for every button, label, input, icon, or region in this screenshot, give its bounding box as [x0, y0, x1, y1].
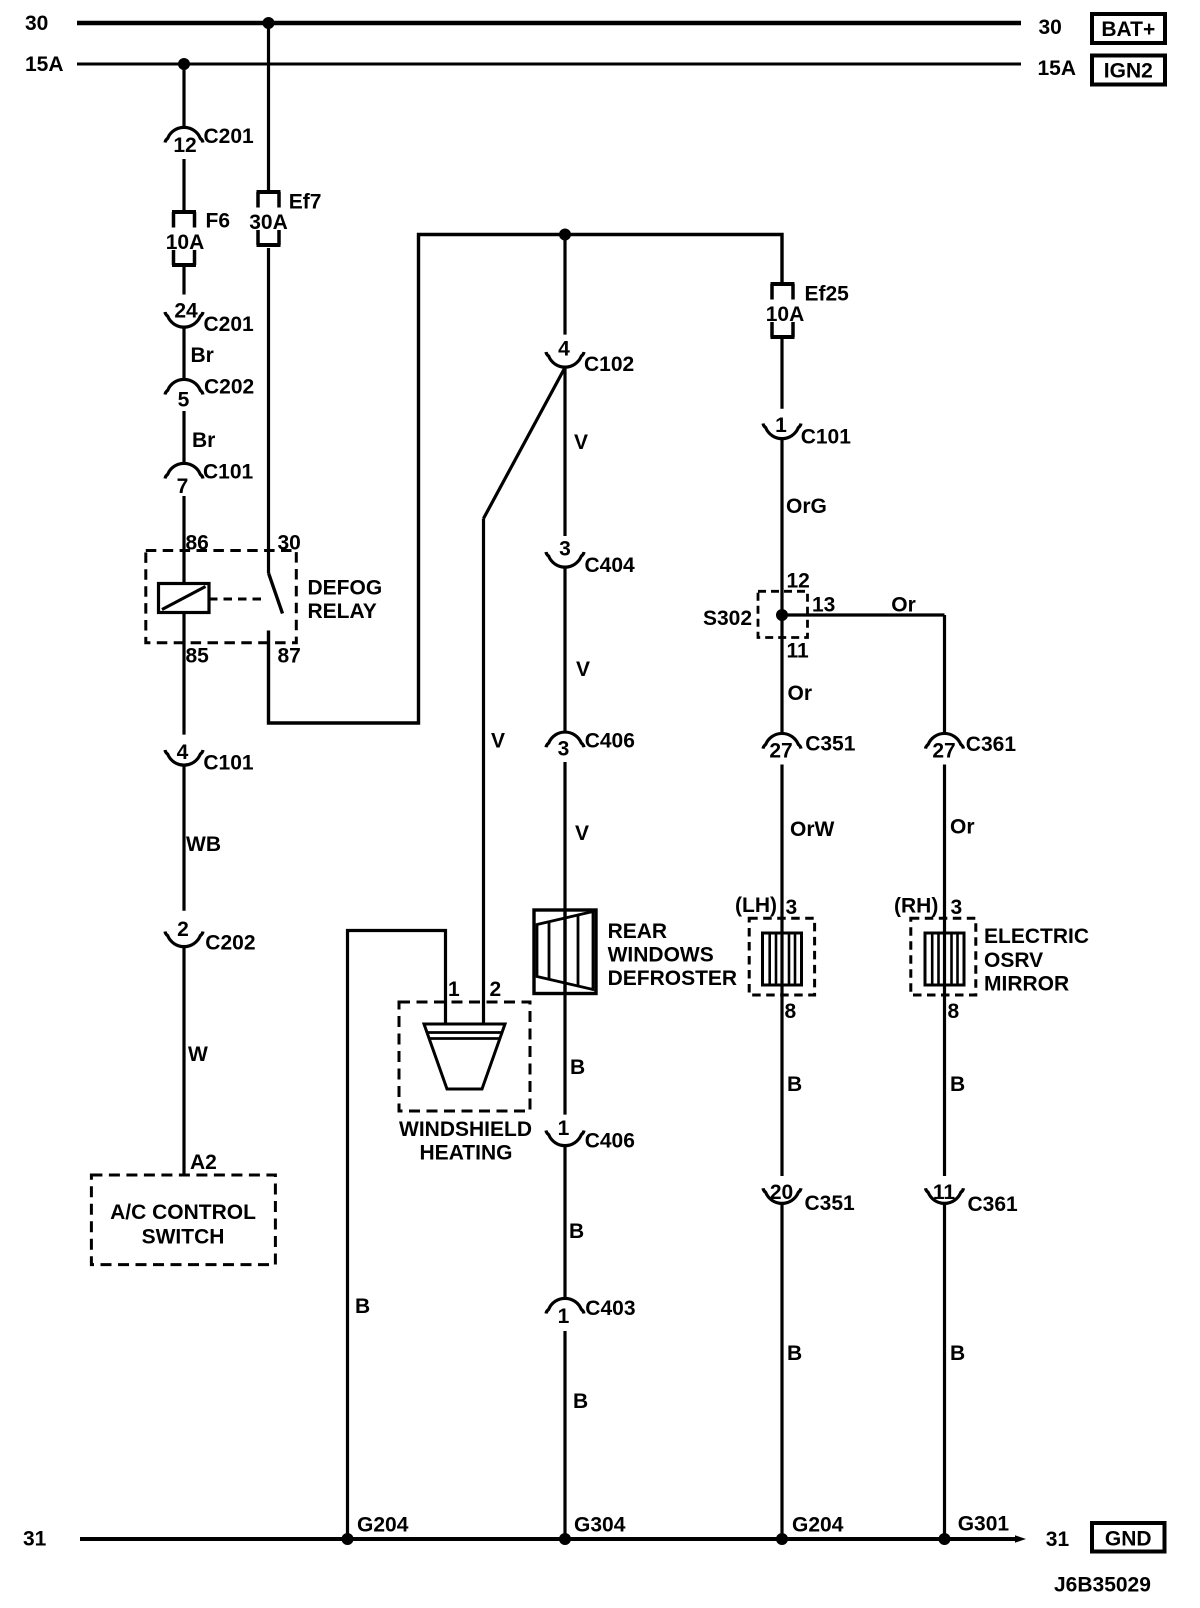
svg-text:V: V [574, 431, 588, 454]
connector C361 pin 27 [926, 733, 964, 748]
svg-text:Ef7: Ef7 [289, 191, 322, 214]
svg-text:GND: GND [1105, 1528, 1152, 1551]
wire W C202 pin2 to A/C control switch pin A2 [182, 947, 185, 1175]
svg-text:10A: 10A [166, 231, 205, 254]
wire Or splice S302 to C361 branch [782, 613, 945, 616]
svg-text:WINDSHIELD: WINDSHIELD [399, 1118, 532, 1141]
wire fuse Ef7 to relay terminal 30 [267, 248, 270, 573]
wire bus 15A (IGN2) horizontal [77, 63, 1021, 66]
svg-text:J6B35029: J6B35029 [1054, 1574, 1151, 1597]
svg-text:10A: 10A [766, 303, 805, 326]
node IGN2 box [1092, 56, 1165, 85]
svg-text:3: 3 [559, 538, 571, 561]
defog relay dashed box [146, 551, 296, 643]
svg-text:G301: G301 [958, 1513, 1010, 1536]
svg-text:(LH): (LH) [735, 894, 777, 917]
svg-text:C406: C406 [585, 1130, 635, 1153]
fuse Ef25 10A [771, 282, 795, 286]
svg-text:G204: G204 [357, 1514, 409, 1537]
svg-text:2: 2 [177, 918, 189, 941]
svg-text:Or: Or [891, 593, 916, 616]
svg-text:5: 5 [178, 389, 190, 412]
svg-text:G304: G304 [574, 1514, 626, 1537]
wire bus 30 to fuse Ef7 [267, 23, 270, 190]
svg-text:1: 1 [775, 414, 787, 437]
svg-text:Or: Or [950, 816, 975, 839]
svg-text:27: 27 [932, 740, 955, 763]
splice S302 dashed box [758, 591, 808, 637]
connector C406 pin 3 [546, 732, 584, 747]
A/C control switch dashed box [91, 1175, 275, 1265]
svg-text:31: 31 [23, 1528, 47, 1551]
svg-text:1: 1 [558, 1117, 570, 1140]
connector C101 pin 7 [165, 463, 203, 478]
svg-text:30: 30 [278, 532, 301, 555]
wire relay terminal 87 routed to Ef25 feed [269, 235, 783, 724]
svg-text:C351: C351 [805, 733, 856, 756]
svg-text:MIRROR: MIRROR [984, 973, 1069, 996]
node BAT+ box [1092, 14, 1165, 43]
svg-text:B: B [570, 1056, 585, 1079]
node junction on bus 15A at left column [178, 58, 190, 70]
svg-text:C403: C403 [585, 1297, 635, 1320]
defog relay switch blade [269, 573, 283, 614]
connector C201 pin 12 [165, 127, 203, 142]
svg-text:85: 85 [186, 645, 210, 668]
svg-text:86: 86 [186, 532, 209, 555]
wire Or C361 pin27 to RH mirror defroster [943, 765, 946, 1177]
svg-text:C101: C101 [801, 426, 852, 449]
svg-text:B: B [950, 1073, 965, 1096]
wire OrG C101 pin1 to splice S302 [780, 439, 783, 733]
svg-text:HEATING: HEATING [420, 1142, 513, 1165]
wire branch to windshield heating pin 2 [484, 368, 566, 519]
svg-text:30: 30 [1039, 16, 1062, 39]
svg-text:C361: C361 [968, 1193, 1019, 1216]
fuse F6 10A [172, 210, 196, 214]
svg-text:OSRV: OSRV [984, 949, 1043, 972]
svg-text:12: 12 [787, 570, 810, 593]
wire V C404 pin3 to C406 pin 3 [563, 568, 566, 732]
wire Or branch to connector C361 pin 27 [943, 615, 946, 733]
svg-text:C201: C201 [204, 125, 255, 148]
svg-text:31: 31 [1046, 1528, 1070, 1551]
wire C201 pin12 to fuse F6 [182, 159, 185, 210]
wire B defroster to connector C406 pin 1 [563, 994, 566, 1115]
bus 31 arrowhead [1015, 1535, 1026, 1542]
svg-text:11: 11 [787, 640, 810, 663]
svg-text:B: B [573, 1390, 588, 1413]
svg-text:IGN2: IGN2 [1104, 60, 1153, 83]
svg-text:15A: 15A [25, 53, 64, 76]
connector C202 pin 5 [165, 379, 203, 394]
wire Br C202 pin5 to C101 pin 7 [182, 411, 185, 463]
wire 15A bus to connector C201 pin 12 [182, 64, 185, 127]
svg-text:3: 3 [786, 896, 798, 919]
wire OrW C351 pin27 to LH mirror defroster [780, 765, 783, 1177]
wire B C406 pin1 to C403 pin 1 [563, 1146, 566, 1298]
svg-text:13: 13 [812, 593, 835, 616]
svg-text:8: 8 [948, 1000, 960, 1023]
svg-text:V: V [575, 822, 589, 845]
wire fuse F6 to connector C201 pin 24 [182, 267, 185, 295]
svg-text:B: B [787, 1073, 802, 1096]
svg-text:C404: C404 [585, 554, 636, 577]
wire WB C101 pin4 to C202 pin 2 [182, 766, 185, 911]
svg-text:REAR: REAR [608, 920, 668, 943]
svg-text:A2: A2 [190, 1151, 217, 1174]
svg-text:W: W [188, 1043, 208, 1066]
defog relay coil [159, 584, 210, 613]
LH mirror defroster dashed box [749, 918, 814, 995]
svg-text:15A: 15A [1038, 57, 1077, 80]
wire bus 31 (GND) horizontal [80, 1537, 1016, 1541]
svg-text:1: 1 [558, 1305, 570, 1328]
svg-text:C202: C202 [205, 932, 255, 955]
relay actuator dashed link [209, 598, 266, 601]
wire junction to connector C102 pin 4 [563, 235, 566, 335]
wire bus 30 (BAT+) horizontal [77, 21, 1021, 26]
svg-text:7: 7 [177, 475, 189, 498]
node junction on bus 30 at Ef7 column [263, 17, 275, 29]
wire B C351 pin20 to ground G204 [780, 1204, 783, 1539]
svg-text:DEFROSTER: DEFROSTER [608, 967, 738, 990]
svg-text:4: 4 [558, 338, 570, 361]
svg-text:RELAY: RELAY [308, 600, 377, 623]
wire V C102 pin4 to C404 pin 3 [563, 368, 566, 537]
svg-text:BAT+: BAT+ [1101, 18, 1155, 41]
svg-text:Br: Br [191, 344, 214, 367]
svg-text:V: V [576, 658, 590, 681]
windshield heating element [424, 1024, 505, 1089]
wire V C406 pin3 to rear windows defroster [563, 762, 566, 910]
svg-text:V: V [491, 730, 505, 753]
svg-text:8: 8 [785, 1000, 797, 1023]
ground G304 junction defroster branch [559, 1533, 571, 1545]
svg-text:B: B [355, 1295, 370, 1318]
fuse Ef7 30A [257, 190, 281, 194]
wire windshield heating pin 1 to ground G204 [348, 931, 446, 1540]
svg-text:87: 87 [278, 645, 301, 668]
wire relay coil 85 to connector C101 pin 4 [182, 613, 185, 735]
svg-text:Ef25: Ef25 [805, 283, 850, 306]
svg-text:Br: Br [192, 429, 215, 452]
svg-text:B: B [569, 1220, 584, 1243]
rear windows defroster element [534, 910, 596, 994]
svg-text:24: 24 [174, 300, 198, 323]
svg-text:C351: C351 [805, 1192, 856, 1215]
svg-text:12: 12 [173, 134, 196, 157]
svg-text:WB: WB [186, 833, 221, 856]
svg-text:30A: 30A [249, 211, 288, 234]
svg-text:3: 3 [558, 738, 570, 761]
svg-text:(RH): (RH) [894, 895, 938, 918]
svg-text:4: 4 [177, 741, 189, 764]
svg-text:ELECTRIC: ELECTRIC [984, 925, 1089, 948]
svg-text:C361: C361 [966, 733, 1017, 756]
svg-text:B: B [950, 1342, 965, 1365]
svg-text:WINDOWS: WINDOWS [608, 944, 714, 967]
svg-text:B: B [787, 1342, 802, 1365]
svg-text:30: 30 [25, 12, 48, 35]
svg-text:SWITCH: SWITCH [142, 1226, 225, 1249]
wire Br C201 pin24 to C202 pin 5 [182, 328, 185, 380]
RH mirror defroster heating element [925, 933, 964, 985]
node junction at rear defroster feed [559, 229, 571, 241]
svg-text:C202: C202 [204, 376, 254, 399]
ground G301 junction RH branch [939, 1533, 951, 1545]
svg-text:1: 1 [448, 978, 460, 1001]
node GND box [1092, 1523, 1165, 1552]
connector C403 pin 1 [546, 1298, 584, 1313]
svg-text:2: 2 [490, 978, 502, 1001]
svg-text:C101: C101 [203, 752, 254, 775]
wire B C361 pin11 to ground G301 [943, 1204, 946, 1539]
svg-text:C102: C102 [584, 353, 634, 376]
ground G204 junction LH branch [776, 1533, 788, 1545]
RH mirror defroster dashed box [911, 918, 976, 995]
svg-text:C406: C406 [585, 730, 635, 753]
svg-text:S302: S302 [703, 607, 752, 630]
svg-text:27: 27 [769, 740, 792, 763]
svg-text:F6: F6 [206, 210, 231, 233]
svg-text:C101: C101 [203, 461, 254, 484]
svg-text:C201: C201 [204, 313, 255, 336]
splice S302 junction [776, 609, 788, 621]
svg-text:OrW: OrW [790, 818, 835, 841]
svg-text:A/C CONTROL: A/C CONTROL [110, 1201, 256, 1224]
svg-text:DEFOG: DEFOG [308, 577, 383, 600]
svg-text:3: 3 [951, 896, 963, 919]
svg-text:G204: G204 [792, 1514, 844, 1537]
svg-text:OrG: OrG [786, 495, 827, 518]
wire B C403 pin1 to ground G304 [563, 1331, 566, 1539]
wire C101 pin7 to defog relay coil terminal 86 [182, 496, 185, 584]
LH mirror defroster heating element [763, 933, 802, 985]
connector C351 pin 27 [763, 733, 801, 748]
wire fuse Ef25 to connector C101 pin 1 [780, 339, 783, 409]
windshield heating dashed box [399, 1002, 530, 1111]
ground G204 junction windshield branch [342, 1533, 354, 1545]
svg-text:Or: Or [788, 682, 813, 705]
